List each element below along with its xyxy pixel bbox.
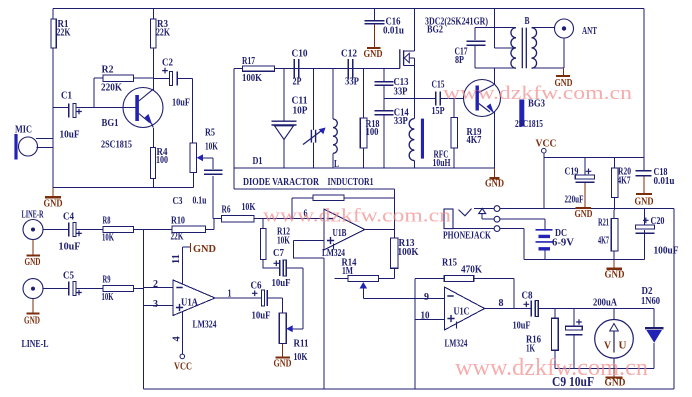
svg-text:10uF: 10uF (172, 97, 190, 109)
svg-text:100: 100 (366, 126, 379, 138)
svg-text:15P: 15P (432, 105, 445, 117)
svg-text:GND: GND (24, 315, 40, 327)
svg-text:R17: R17 (242, 55, 255, 67)
svg-text:C1: C1 (61, 90, 72, 102)
svg-text:22K: 22K (156, 27, 170, 39)
svg-text:LINE-L: LINE-L (22, 338, 49, 350)
svg-text:www.dzkfw.com.cn: www.dzkfw.com.cn (443, 83, 633, 104)
svg-text:R6: R6 (222, 204, 231, 216)
svg-text:U1C: U1C (454, 306, 470, 318)
svg-text:220uF: 220uF (565, 194, 584, 206)
svg-text:100K: 100K (242, 72, 262, 84)
svg-text:10uF: 10uF (272, 277, 291, 289)
svg-text:9: 9 (424, 291, 429, 303)
svg-text:11: 11 (171, 254, 182, 264)
svg-text:8: 8 (499, 297, 504, 309)
svg-text:C3: C3 (173, 195, 183, 207)
svg-text:2P: 2P (293, 76, 302, 88)
svg-text:DIODE VARACTOR: DIODE VARACTOR (243, 176, 320, 188)
svg-text:2SC1815: 2SC1815 (515, 118, 543, 130)
svg-text:33P: 33P (345, 76, 359, 88)
svg-text:10K: 10K (294, 351, 308, 363)
svg-text:10uF: 10uF (252, 310, 271, 322)
svg-text:D1: D1 (253, 155, 263, 167)
svg-text:10P: 10P (293, 105, 308, 117)
svg-text:4K7: 4K7 (467, 134, 482, 146)
svg-text:200uA: 200uA (593, 297, 617, 309)
svg-text:PHONEJACK: PHONEJACK (443, 230, 491, 242)
svg-text:22K: 22K (57, 27, 71, 39)
svg-text:R9: R9 (103, 274, 111, 286)
svg-text:0.01u: 0.01u (654, 175, 675, 187)
svg-text:10K: 10K (102, 232, 114, 244)
svg-text:GND: GND (605, 269, 625, 281)
svg-text:10uF: 10uF (59, 241, 81, 253)
svg-text:R10: R10 (171, 215, 185, 227)
svg-text:22K: 22K (171, 231, 184, 243)
svg-text:R15: R15 (442, 257, 457, 269)
svg-text:BG1: BG1 (102, 117, 119, 129)
svg-text:B: B (525, 15, 530, 27)
svg-text:V: V (604, 340, 611, 352)
svg-text:1K: 1K (526, 343, 535, 355)
svg-text:1N60: 1N60 (641, 295, 660, 307)
svg-text:C7: C7 (273, 247, 284, 259)
svg-text:8P: 8P (455, 54, 464, 66)
svg-text:U1A: U1A (181, 297, 198, 309)
svg-text:1M: 1M (342, 265, 353, 277)
svg-text:GND: GND (485, 178, 504, 190)
svg-text:C4: C4 (63, 211, 74, 223)
svg-text:4K7: 4K7 (598, 235, 609, 247)
svg-text:C6: C6 (251, 280, 262, 292)
svg-text:R5: R5 (205, 127, 215, 139)
svg-text:GND: GND (364, 48, 383, 60)
svg-text:MIC: MIC (15, 124, 32, 136)
svg-text:LM324: LM324 (193, 319, 217, 331)
svg-text:U1B: U1B (333, 227, 347, 239)
svg-text:100uF: 100uF (654, 245, 679, 257)
svg-text:GND: GND (193, 243, 216, 255)
svg-text:C19: C19 (565, 166, 579, 178)
svg-text:GND: GND (44, 198, 63, 210)
svg-text:4K7: 4K7 (618, 175, 631, 187)
svg-text:R2: R2 (102, 64, 114, 76)
svg-text:www.dzkfw.com.cn: www.dzkfw.com.cn (455, 355, 648, 381)
svg-text:4: 4 (171, 336, 182, 342)
svg-text:100: 100 (156, 154, 168, 166)
svg-text:10K: 10K (205, 141, 218, 153)
svg-text:U: U (619, 340, 627, 352)
svg-text:GND: GND (635, 196, 654, 208)
svg-text:BG2: BG2 (427, 24, 443, 36)
svg-text:C5: C5 (63, 270, 74, 282)
svg-text:www.dzkfw.com.cn: www.dzkfw.com.cn (263, 206, 452, 227)
svg-text:470K: 470K (461, 264, 482, 276)
svg-text:C10: C10 (292, 48, 308, 60)
svg-text:33P: 33P (394, 86, 408, 98)
svg-text:2SC1815: 2SC1815 (101, 139, 132, 151)
svg-text:R8: R8 (103, 215, 111, 227)
svg-text:VCC: VCC (174, 361, 192, 373)
svg-text:3: 3 (153, 298, 158, 310)
svg-text:LM324: LM324 (445, 338, 468, 350)
svg-text:0.1u: 0.1u (193, 195, 207, 207)
svg-text:C20: C20 (651, 215, 665, 227)
svg-text:220K: 220K (101, 82, 122, 94)
svg-text:GND: GND (575, 208, 593, 220)
svg-text:10uH: 10uH (433, 157, 451, 169)
svg-text:VCC: VCC (536, 138, 557, 150)
svg-text:6-9V: 6-9V (552, 237, 574, 249)
svg-text:0.01u: 0.01u (383, 25, 404, 37)
svg-text:10K: 10K (242, 201, 256, 213)
svg-text:10uF: 10uF (513, 320, 531, 332)
svg-text:1: 1 (228, 288, 232, 300)
svg-text:GND: GND (25, 256, 41, 268)
svg-text:10: 10 (421, 310, 430, 322)
svg-text:33P: 33P (394, 115, 408, 127)
svg-text:LINE-R: LINE-R (22, 209, 45, 221)
svg-text:R21: R21 (598, 217, 609, 229)
svg-text:C8: C8 (522, 290, 533, 302)
svg-text:100K: 100K (398, 246, 419, 258)
svg-text:R11: R11 (294, 338, 309, 350)
svg-text:10K: 10K (277, 235, 290, 247)
svg-text:ANT: ANT (582, 25, 597, 37)
svg-text:L: L (334, 158, 339, 170)
svg-text:C12: C12 (341, 48, 357, 60)
svg-text:10uF: 10uF (60, 129, 80, 141)
svg-text:C2: C2 (162, 57, 173, 69)
svg-text:GND: GND (274, 358, 292, 370)
svg-text:10K: 10K (102, 291, 114, 303)
svg-text:INDUCTOR1: INDUCTOR1 (328, 176, 374, 188)
svg-text:2: 2 (153, 278, 158, 290)
